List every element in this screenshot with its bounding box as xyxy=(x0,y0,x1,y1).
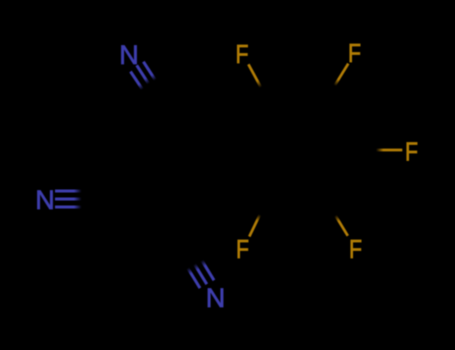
svg-text:F: F xyxy=(405,138,418,168)
svg-text:F: F xyxy=(348,39,361,69)
svg-text:F: F xyxy=(349,235,362,265)
svg-text:N: N xyxy=(35,185,55,215)
svg-text:N: N xyxy=(206,283,226,313)
svg-text:N: N xyxy=(119,40,139,70)
svg-text:F: F xyxy=(236,235,249,265)
svg-text:F: F xyxy=(235,40,248,70)
